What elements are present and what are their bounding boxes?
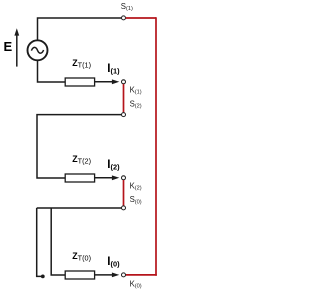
junction dot (neutral) bbox=[41, 275, 45, 279]
wire ZT0 to K0 with current arrow bbox=[95, 273, 120, 278]
node K2 bbox=[122, 176, 126, 180]
node K0 bbox=[122, 273, 126, 277]
svg-text:ZT(1): ZT(1) bbox=[72, 58, 91, 70]
resistor ZT1 bbox=[65, 78, 94, 86]
emf arrow bbox=[14, 28, 19, 66]
svg-text:ZT(2): ZT(2) bbox=[72, 154, 91, 166]
wire source top to S1 bbox=[38, 18, 122, 40]
wire ZT2 to K2 with current arrow bbox=[95, 175, 120, 180]
node S2 bbox=[122, 113, 126, 117]
node S1 bbox=[122, 16, 126, 20]
wire S0 left bbox=[37, 207, 122, 209]
svg-text:ZT(0): ZT(0) bbox=[72, 251, 91, 263]
resistor ZT2 bbox=[65, 174, 94, 182]
wire S0 branch down to ZT0 bbox=[51, 208, 65, 275]
red wire rail to K0 bbox=[126, 274, 157, 276]
red right rail bbox=[155, 17, 157, 276]
svg-text:E: E bbox=[4, 39, 13, 54]
wire S2 left down to ZT2 bbox=[37, 115, 121, 178]
red wire K2 to S0 bbox=[123, 180, 125, 206]
voltage source E1 (AC) bbox=[28, 40, 48, 60]
wire ZT1 to K1 with current arrow bbox=[95, 79, 120, 84]
red wire S1 to rail bbox=[126, 17, 156, 19]
resistor ZT0 bbox=[65, 271, 94, 279]
wire source bottom to ZT1 bbox=[38, 61, 66, 82]
node K1 bbox=[122, 80, 126, 84]
wire stub to neutral point bbox=[37, 208, 41, 276]
node S0 bbox=[122, 206, 126, 210]
red wire K1 to S2 bbox=[123, 84, 125, 112]
